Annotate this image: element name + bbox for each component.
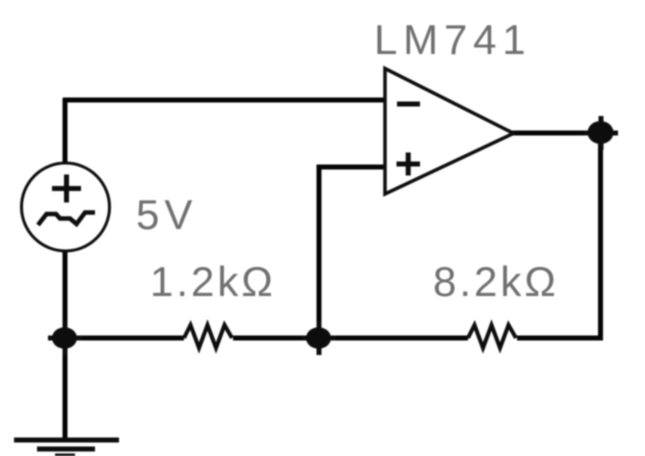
- node output junction: [584, 116, 618, 150]
- ground: [14, 440, 119, 456]
- svg-text:1.2kΩ: 1.2kΩ: [150, 258, 276, 305]
- op-amp non-inverting pin plus: [397, 153, 421, 176]
- svg-text:8.2kΩ: 8.2kΩ: [433, 258, 559, 305]
- svg-text:LM741: LM741: [374, 16, 531, 63]
- wire bottom middle segment from R1 to feedback node and on to R2: [233, 336, 468, 341]
- wire vertical from top wire down to source top: [63, 98, 68, 164]
- wire top horizontal from source to inverting input: [63, 98, 386, 103]
- wire bottom left segment from ground node to R1: [65, 336, 184, 341]
- wire output node down to bottom right corner: [598, 133, 603, 340]
- voltage source sine squiggle: [38, 213, 95, 226]
- node left junction (source / R1 / ground): [48, 321, 82, 355]
- resistor R1 1.2k zigzag: [184, 325, 232, 348]
- wire op-amp output to output node: [511, 131, 602, 136]
- wire vertical from source bottom through node to ground: [63, 250, 68, 440]
- wire feedback vertical from middle node up: [317, 165, 322, 339]
- voltage source V1 circle: [22, 163, 110, 251]
- svg-text:5V: 5V: [136, 191, 197, 238]
- node middle junction (R1 / R2 / feedback): [302, 321, 336, 355]
- op-amp U1 triangle: [385, 69, 514, 195]
- op-amp inverting pin minus: [397, 102, 420, 107]
- wire to non-inverting input: [317, 165, 387, 170]
- wire bottom right segment from R2 to corner: [517, 336, 603, 341]
- resistor R2 8.2k zigzag: [468, 325, 516, 348]
- voltage source plus polarity mark: [52, 175, 81, 203]
